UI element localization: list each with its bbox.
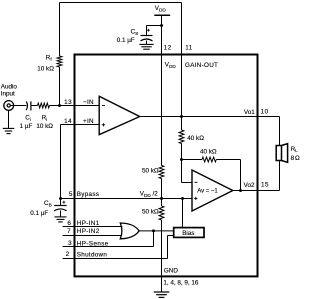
svg-text:40 kΩ: 40 kΩ [187,135,204,142]
svg-text:8 Ω: 8 Ω [291,155,300,162]
svg-text:6: 6 [67,220,71,227]
svg-text:Audio: Audio [1,84,18,91]
svg-text:GND: GND [164,267,178,274]
svg-text:13: 13 [64,99,72,106]
svg-text:50 kΩ: 50 kΩ [142,208,159,215]
svg-text:Bias: Bias [182,230,194,237]
svg-text:1 µF: 1 µF [20,123,33,130]
svg-text:HP-IN2: HP-IN2 [77,228,100,235]
svg-text:7: 7 [67,228,71,235]
svg-text:HP-Sense: HP-Sense [77,240,109,247]
svg-text:14: 14 [64,118,72,125]
svg-text:Shutdown: Shutdown [77,252,108,259]
svg-text:50 kΩ: 50 kΩ [142,168,159,175]
svg-text:40 kΩ: 40 kΩ [200,149,217,156]
svg-text:0.1 µF: 0.1 µF [117,37,135,44]
svg-text:Input: Input [1,91,15,98]
svg-text:Vo1: Vo1 [244,109,255,116]
svg-text:2: 2 [66,251,70,258]
svg-text:10 kΩ: 10 kΩ [37,66,54,73]
svg-text:GAIN-OUT: GAIN-OUT [185,62,218,69]
svg-text:10 kΩ: 10 kΩ [36,123,53,130]
svg-text:15: 15 [261,182,269,189]
svg-text:−IN: −IN [83,99,94,106]
svg-text:Vo2: Vo2 [244,182,255,189]
svg-text:12: 12 [164,44,172,51]
svg-text:5: 5 [69,191,73,198]
svg-text:Bypass: Bypass [77,191,99,198]
svg-text:0.1 µF: 0.1 µF [30,210,48,217]
svg-text:+IN: +IN [83,118,94,125]
svg-text:10: 10 [261,109,269,116]
svg-text:HP-IN1: HP-IN1 [77,220,100,227]
svg-text:11: 11 [185,44,193,51]
svg-text:3: 3 [68,240,72,247]
svg-text:1, 4, 8, 9, 16: 1, 4, 8, 9, 16 [163,279,199,286]
svg-text:Av = −1: Av = −1 [197,188,218,194]
